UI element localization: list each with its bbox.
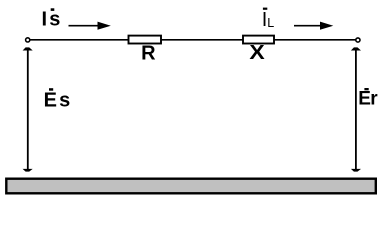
- resistor R: [129, 36, 162, 44]
- svg-text:L: L: [267, 16, 274, 30]
- label Is (sending-end current): [42, 8, 61, 30]
- svg-text:E: E: [44, 90, 57, 112]
- node: receiving-end terminal: [356, 38, 360, 42]
- svg-text:r: r: [370, 88, 378, 109]
- node: sending-end terminal: [26, 38, 30, 42]
- svg-text:s: s: [49, 9, 60, 31]
- arrow Is direction: [69, 22, 111, 30]
- voltage arrow Es (double-headed): [23, 47, 33, 171]
- svg-text:X: X: [249, 41, 265, 64]
- ground plane bar: [6, 179, 376, 194]
- svg-text:I: I: [42, 9, 48, 31]
- reactance X: [243, 36, 274, 44]
- label IL (load current): [262, 8, 275, 31]
- voltage arrow Er (double-headed): [351, 47, 361, 171]
- wire from sending terminal to R: [30, 39, 129, 41]
- svg-text:E: E: [358, 88, 371, 109]
- label Er: [358, 88, 378, 109]
- label Es: [44, 88, 71, 111]
- wire from X to receiving terminal: [274, 39, 356, 41]
- wire between R and X: [161, 39, 243, 41]
- arrow IL direction: [294, 22, 333, 30]
- svg-text:s: s: [59, 90, 70, 112]
- svg-text:R: R: [141, 43, 156, 65]
